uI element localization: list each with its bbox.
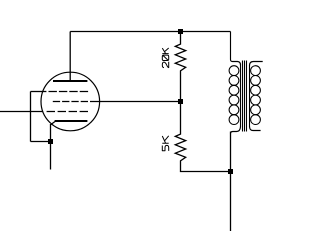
wire cathode bend — [51, 122, 55, 125]
transformer T1 secondary loop 2 — [251, 76, 261, 86]
grid G1 control (dashed) — [47, 111, 88, 113]
transformer T1 secondary loop 3 — [251, 85, 261, 95]
resistor R2 5K — [175, 102, 230, 172]
junction cathode node — [48, 139, 53, 144]
wire jumper to cathode junction — [31, 141, 51, 143]
wire top rail B+ — [70, 31, 230, 33]
transformer T1 secondary loop 5 — [251, 105, 261, 115]
transformer T1 primary loop 6 — [229, 115, 239, 125]
junction bottom node — [228, 169, 233, 174]
label 20K — [162, 48, 168, 68]
transformer T1 secondary top lead — [250, 62, 263, 66]
wire input to control grid — [0, 111, 43, 113]
resistor R1 20K — [175, 32, 185, 102]
transformer T1 secondary bottom lead — [250, 126, 261, 131]
transformer T1 primary loop 5 — [229, 105, 239, 115]
wire suppressor jumper vertical — [30, 92, 32, 142]
transformer T1 core line 1 — [242, 61, 244, 132]
transformer T1 primary bottom lead — [231, 126, 241, 134]
transformer T1 primary loop 4 — [229, 95, 239, 105]
grid G3 suppressor (dashed) — [49, 91, 89, 93]
wire plate lead — [69, 32, 71, 81]
transformer T1 primary top lead — [231, 32, 241, 66]
transformer T1 primary loop 2 — [229, 76, 239, 86]
junction top rail node — [178, 29, 183, 34]
grid G2 screen (dashed) — [53, 101, 88, 103]
plate (anode) bar — [53, 80, 87, 82]
wire screen grid to divider node — [90, 101, 181, 103]
transformer T1 secondary backbone — [249, 65, 251, 126]
transformer T1 secondary loop 1 — [251, 66, 261, 76]
transformer T1 primary loop 1 — [229, 66, 239, 76]
transformer T1 secondary loop 4 — [251, 95, 261, 105]
wire cathode lead — [50, 124, 52, 170]
transformer T1 core line 3 — [246, 61, 248, 132]
junction divider node — [178, 99, 183, 104]
transformer T1 secondary loop 6 — [251, 115, 261, 125]
transformer T1 primary backbone — [240, 65, 242, 127]
transformer T1 primary loop 3 — [229, 85, 239, 95]
transformer T1 core line 2 — [244, 61, 246, 132]
wire bottom lead down — [230, 132, 232, 232]
tube V1 envelope — [41, 72, 100, 131]
wire suppressor jumper horizontal — [31, 91, 47, 93]
cathode bar — [55, 120, 88, 122]
label 5K — [162, 136, 168, 151]
